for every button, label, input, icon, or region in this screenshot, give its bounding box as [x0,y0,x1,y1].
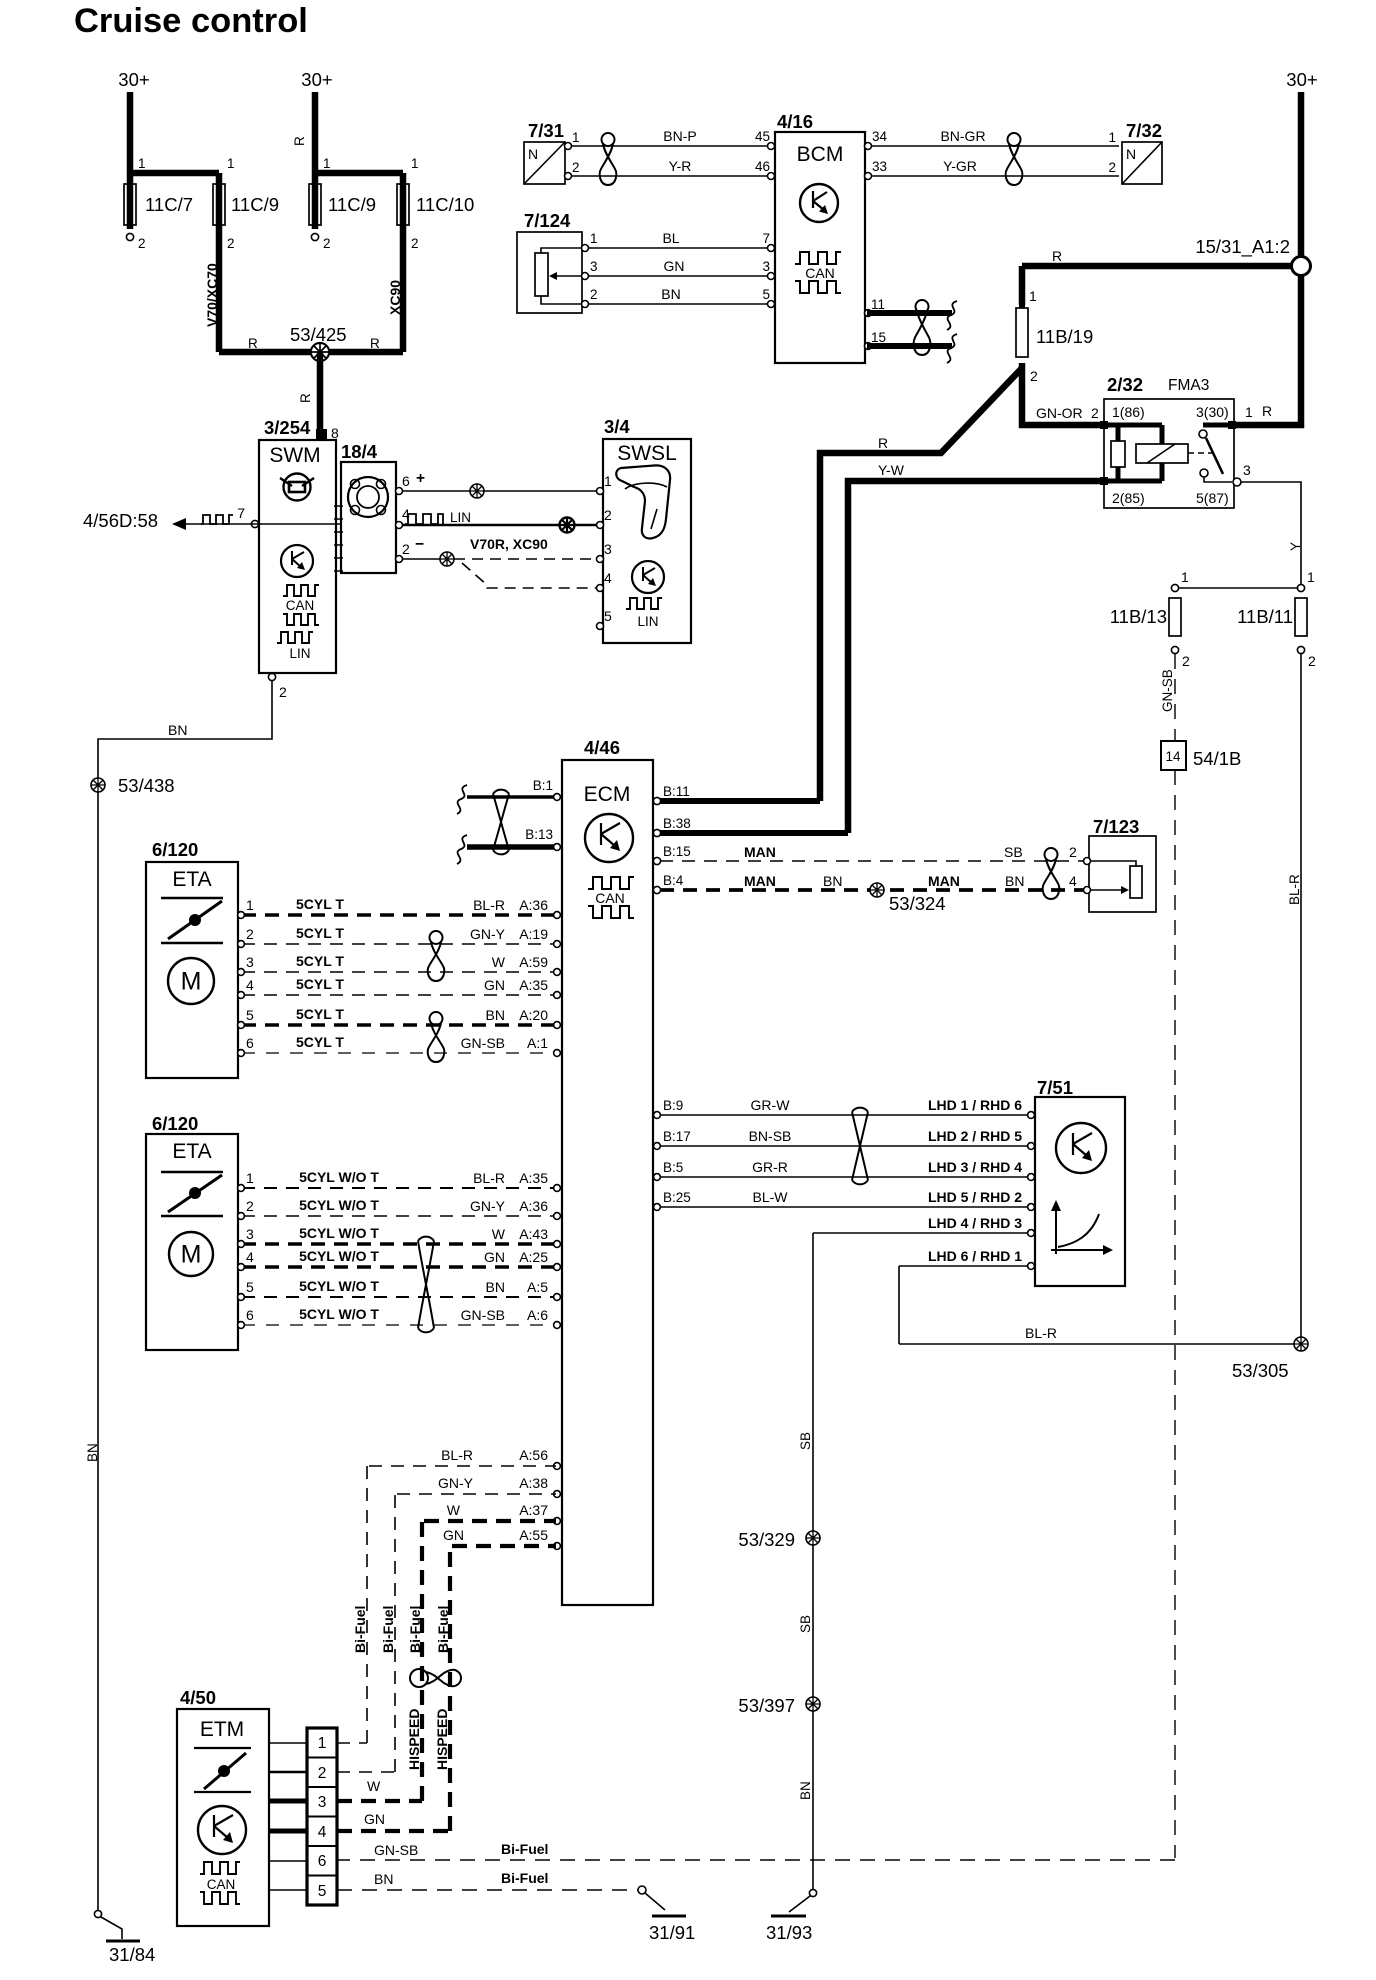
svg-text:18/4: 18/4 [341,441,378,462]
svg-text:5CYL W/O T: 5CYL W/O T [299,1197,379,1213]
svg-text:GN: GN [664,258,685,274]
svg-text:A:55: A:55 [519,1527,548,1543]
svg-text:7/32: 7/32 [1126,120,1162,141]
svg-text:5CYL W/O T: 5CYL W/O T [299,1248,379,1264]
svg-text:3/4: 3/4 [604,416,630,437]
svg-text:15/31_A1:2: 15/31_A1:2 [1195,236,1290,258]
svg-text:5: 5 [762,287,770,302]
svg-text:BN: BN [85,1443,100,1462]
svg-text:3: 3 [604,541,612,557]
svg-text:BL-R: BL-R [441,1447,473,1463]
svg-text:30+: 30+ [1286,69,1317,90]
svg-text:GR-W: GR-W [751,1097,791,1113]
svg-text:1: 1 [1108,130,1116,145]
svg-text:11C/10: 11C/10 [416,194,474,215]
svg-text:BN-GR: BN-GR [940,128,985,144]
svg-text:3: 3 [246,1226,254,1242]
svg-text:SB: SB [1004,844,1023,860]
svg-text:53/425: 53/425 [290,324,347,345]
svg-text:2: 2 [1182,653,1190,669]
svg-text:V70R, XC90: V70R, XC90 [470,536,548,552]
svg-text:SWSL: SWSL [617,442,677,465]
svg-text:A:25: A:25 [519,1249,548,1265]
svg-text:4: 4 [1069,873,1077,889]
svg-text:BN: BN [486,1007,505,1023]
svg-text:SB: SB [798,1615,813,1633]
svg-text:A:38: A:38 [519,1475,548,1491]
svg-text:2: 2 [604,507,612,523]
svg-text:B:11: B:11 [663,784,690,799]
svg-text:LHD 2 / RHD 5: LHD 2 / RHD 5 [928,1128,1022,1144]
svg-text:MAN: MAN [744,873,776,889]
svg-text:3: 3 [1243,462,1251,478]
svg-text:1: 1 [323,156,331,171]
svg-text:LIN: LIN [450,510,471,525]
svg-text:1: 1 [227,156,235,171]
svg-text:11C/9: 11C/9 [231,194,279,215]
svg-text:2: 2 [402,541,410,557]
svg-text:A:36: A:36 [519,897,548,913]
svg-text:33: 33 [872,159,887,174]
svg-text:MAN: MAN [928,873,960,889]
svg-text:R: R [298,393,313,403]
svg-text:5CYL T: 5CYL T [296,896,344,912]
svg-text:GN-OR: GN-OR [1036,405,1083,421]
svg-text:GN: GN [443,1527,464,1543]
svg-text:B:5: B:5 [663,1160,683,1175]
svg-text:2: 2 [1108,160,1116,175]
svg-text:ETA: ETA [172,1140,211,1163]
svg-text:M: M [181,968,202,996]
svg-text:11C/7: 11C/7 [145,194,193,215]
svg-text:4: 4 [318,1824,327,1841]
svg-text:BL-R: BL-R [473,897,505,913]
svg-text:5CYL T: 5CYL T [296,1006,344,1022]
svg-text:A:5: A:5 [527,1279,548,1295]
svg-text:53/324: 53/324 [889,893,946,914]
svg-text:1: 1 [572,130,580,145]
svg-text:2: 2 [323,236,331,251]
svg-text:GN-SB: GN-SB [374,1842,418,1858]
svg-text:11: 11 [871,297,885,312]
svg-text:7/124: 7/124 [524,210,571,231]
svg-text:15: 15 [871,330,886,345]
svg-text:14: 14 [1165,749,1181,764]
svg-text:1: 1 [1307,569,1315,585]
svg-text:Y-R: Y-R [669,158,692,174]
svg-text:54/1B: 54/1B [1193,748,1241,769]
svg-text:BN-SB: BN-SB [749,1128,792,1144]
svg-text:6/120: 6/120 [152,1113,198,1134]
svg-text:LHD 3 / RHD 4: LHD 3 / RHD 4 [928,1159,1022,1175]
svg-text:1(86): 1(86) [1112,404,1145,420]
svg-text:CAN: CAN [595,890,625,906]
svg-text:31/91: 31/91 [649,1922,695,1943]
svg-text:W: W [447,1502,461,1518]
svg-text:Y: Y [1288,542,1303,551]
svg-text:GR-R: GR-R [752,1159,788,1175]
svg-text:XC90: XC90 [387,280,403,315]
svg-text:2: 2 [318,1765,327,1782]
svg-text:4/46: 4/46 [584,737,620,758]
svg-text:B:9: B:9 [663,1098,683,1113]
svg-text:2: 2 [279,684,287,700]
svg-text:5: 5 [318,1883,327,1900]
svg-text:7/123: 7/123 [1093,816,1139,837]
svg-text:3: 3 [762,259,770,274]
svg-text:53/397: 53/397 [738,1695,795,1716]
svg-text:GN-Y: GN-Y [470,1198,506,1214]
svg-text:30+: 30+ [301,69,332,90]
svg-text:53/438: 53/438 [118,775,175,796]
svg-text:7: 7 [237,505,245,521]
svg-text:6: 6 [402,473,410,489]
svg-text:1: 1 [1245,404,1253,420]
svg-text:W: W [367,1778,381,1794]
svg-text:MAN: MAN [744,844,776,860]
svg-text:LHD 1 / RHD 6: LHD 1 / RHD 6 [928,1097,1022,1113]
svg-text:BL-R: BL-R [473,1170,505,1186]
svg-text:11B/13: 11B/13 [1110,606,1167,627]
svg-text:CAN: CAN [207,1877,236,1892]
svg-text:LHD 4 / RHD 3: LHD 4 / RHD 3 [928,1215,1022,1231]
svg-text:6: 6 [318,1853,327,1870]
svg-text:V70/XC70: V70/XC70 [204,263,220,327]
svg-text:A:20: A:20 [519,1007,548,1023]
svg-text:R: R [878,435,888,451]
svg-text:LIN: LIN [289,646,310,661]
svg-text:4/56D:58: 4/56D:58 [83,510,158,531]
svg-text:B:38: B:38 [663,816,691,831]
svg-text:GN-SB: GN-SB [1160,669,1175,712]
svg-text:A:35: A:35 [519,1170,548,1186]
svg-text:Bi-Fuel: Bi-Fuel [352,1606,368,1653]
svg-text:LIN: LIN [637,614,658,629]
svg-text:2: 2 [1069,844,1077,860]
svg-text:A:43: A:43 [519,1226,548,1242]
svg-text:5CYL T: 5CYL T [296,953,344,969]
svg-text:GN: GN [364,1811,385,1827]
svg-text:BN: BN [798,1781,813,1800]
svg-text:BN: BN [661,286,680,302]
svg-text:2: 2 [138,236,146,251]
svg-text:5CYL W/O T: 5CYL W/O T [299,1278,379,1294]
svg-text:53/305: 53/305 [1232,1360,1289,1381]
svg-text:7: 7 [762,231,770,246]
svg-text:A:19: A:19 [519,926,548,942]
svg-text:R: R [370,336,380,351]
svg-text:BN: BN [823,873,842,889]
svg-text:A:35: A:35 [519,977,548,993]
svg-text:R: R [1262,403,1272,419]
svg-text:4: 4 [246,1249,254,1265]
svg-text:A:59: A:59 [519,954,548,970]
svg-text:34: 34 [872,129,888,144]
svg-text:2: 2 [1030,368,1038,384]
svg-text:Cruise control: Cruise control [74,2,308,40]
svg-text:FMA3: FMA3 [1168,377,1209,394]
svg-text:BN-P: BN-P [663,128,696,144]
svg-text:3: 3 [590,259,598,274]
svg-text:5(87): 5(87) [1196,490,1229,506]
svg-text:B:25: B:25 [663,1190,691,1205]
svg-text:5CYL W/O T: 5CYL W/O T [299,1169,379,1185]
svg-text:5CYL W/O T: 5CYL W/O T [299,1225,379,1241]
svg-text:3: 3 [246,954,254,970]
svg-text:BN: BN [1005,873,1024,889]
svg-text:5: 5 [246,1279,254,1295]
svg-text:11B/19: 11B/19 [1036,326,1093,347]
svg-text:7/51: 7/51 [1037,1077,1073,1098]
svg-text:4: 4 [604,570,612,586]
svg-text:1: 1 [246,1170,254,1186]
svg-text:HISPEED: HISPEED [434,1709,450,1770]
svg-text:1: 1 [138,156,146,171]
svg-text:5: 5 [246,1007,254,1023]
svg-text:GN: GN [484,1249,505,1265]
svg-text:BN: BN [168,722,187,738]
svg-text:Bi-Fuel: Bi-Fuel [501,1841,548,1857]
svg-text:BN: BN [374,1871,393,1887]
svg-text:BL-R: BL-R [1287,874,1302,905]
svg-text:2: 2 [411,236,419,251]
svg-text:W: W [492,1226,506,1242]
svg-text:3: 3 [318,1794,327,1811]
svg-text:2: 2 [590,287,598,302]
svg-text:CAN: CAN [286,598,315,613]
svg-text:Bi-Fuel: Bi-Fuel [435,1606,451,1653]
svg-text:ETM: ETM [200,1718,244,1741]
svg-text:30+: 30+ [118,69,149,90]
svg-text:LHD 6 / RHD 1: LHD 6 / RHD 1 [928,1248,1022,1264]
svg-text:BCM: BCM [797,143,844,166]
svg-text:8: 8 [331,425,339,441]
svg-text:5: 5 [604,608,612,624]
svg-text:SB: SB [798,1432,813,1450]
svg-text:6: 6 [246,1035,254,1051]
svg-text:45: 45 [755,129,770,144]
svg-text:2(85): 2(85) [1112,490,1145,506]
svg-text:2: 2 [1091,405,1099,421]
svg-text:2/32: 2/32 [1107,374,1143,395]
svg-text:2: 2 [572,160,580,175]
svg-text:31/84: 31/84 [109,1944,155,1965]
svg-text:B:13: B:13 [525,827,553,842]
svg-text:R: R [248,336,258,351]
svg-text:5CYL W/O T: 5CYL W/O T [299,1306,379,1322]
svg-text:R: R [1052,248,1062,264]
svg-text:5CYL T: 5CYL T [296,1034,344,1050]
svg-text:−: − [415,536,424,553]
svg-text:3/254: 3/254 [264,417,311,438]
svg-text:6: 6 [246,1307,254,1323]
svg-text:A:1: A:1 [527,1035,548,1051]
svg-text:LHD 5 / RHD 2: LHD 5 / RHD 2 [928,1189,1022,1205]
svg-text:31/93: 31/93 [766,1922,812,1943]
svg-text:GN: GN [484,977,505,993]
svg-text:+: + [416,470,425,487]
svg-text:GN-Y: GN-Y [470,926,506,942]
svg-text:A:56: A:56 [519,1447,548,1463]
svg-text:1: 1 [318,1735,327,1752]
svg-text:BL-W: BL-W [753,1189,789,1205]
svg-text:B:1: B:1 [533,778,553,793]
svg-text:53/329: 53/329 [738,1529,795,1550]
svg-text:ETA: ETA [172,868,211,891]
svg-text:BL: BL [662,230,679,246]
svg-text:M: M [181,1241,202,1269]
svg-text:5CYL T: 5CYL T [296,976,344,992]
svg-text:GN-SB: GN-SB [461,1307,505,1323]
svg-text:4/16: 4/16 [777,111,813,132]
svg-text:N: N [528,146,538,162]
svg-text:1: 1 [604,473,612,489]
svg-text:A:37: A:37 [519,1502,548,1518]
svg-text:3(30): 3(30) [1196,404,1229,420]
svg-text:ECM: ECM [584,783,631,806]
svg-text:B:15: B:15 [663,844,691,859]
svg-text:11B/11: 11B/11 [1237,606,1293,627]
svg-text:1: 1 [590,231,598,246]
svg-text:Bi-Fuel: Bi-Fuel [380,1606,396,1653]
svg-text:GN-SB: GN-SB [461,1035,505,1051]
svg-text:GN-Y: GN-Y [438,1475,474,1491]
svg-text:1: 1 [1181,569,1189,585]
svg-text:1: 1 [246,897,254,913]
svg-text:B:17: B:17 [663,1129,691,1144]
svg-text:Y-W: Y-W [878,462,905,478]
svg-text:SWM: SWM [269,444,320,467]
svg-text:A:6: A:6 [527,1307,548,1323]
svg-text:BN: BN [486,1279,505,1295]
svg-text:N: N [1126,146,1136,162]
svg-text:2: 2 [246,926,254,942]
svg-text:B:4: B:4 [663,873,684,888]
svg-text:Bi-Fuel: Bi-Fuel [501,1870,548,1886]
svg-text:5CYL T: 5CYL T [296,925,344,941]
svg-text:W: W [492,954,506,970]
svg-text:46: 46 [755,159,770,174]
svg-text:2: 2 [246,1198,254,1214]
svg-text:BL-R: BL-R [1025,1325,1057,1341]
svg-text:7/31: 7/31 [528,120,564,141]
svg-text:CAN: CAN [805,265,835,281]
svg-text:R: R [292,136,307,146]
svg-text:Y-GR: Y-GR [943,158,977,174]
svg-text:2: 2 [227,236,235,251]
svg-text:4/50: 4/50 [180,1687,216,1708]
svg-text:HISPEED: HISPEED [406,1709,422,1770]
svg-text:1: 1 [1029,288,1037,304]
svg-text:6/120: 6/120 [152,839,198,860]
svg-text:A:36: A:36 [519,1198,548,1214]
svg-text:2: 2 [1308,653,1316,669]
svg-text:11C/9: 11C/9 [328,194,376,215]
svg-text:Bi-Fuel: Bi-Fuel [407,1606,423,1653]
svg-text:1: 1 [411,156,419,171]
svg-text:4: 4 [246,977,254,993]
